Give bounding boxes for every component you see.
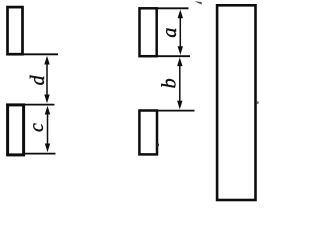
dimension arrow b: [177, 57, 182, 109]
scan speck on right edge of bottom-middle plate: [157, 144, 159, 147]
rectangle: bottom-middle plate: [139, 111, 157, 155]
svg-text:b: b: [158, 78, 180, 88]
svg-text:c: c: [26, 123, 48, 132]
svg-text:d: d: [27, 74, 49, 85]
dimension arrow a: [178, 10, 183, 56]
rectangle: bottom-left plate: [8, 105, 24, 155]
scan speck right of tall plate: [257, 102, 259, 104]
wire: extension line at top of top-middle plate: [156, 7, 189, 9]
wire: extension line from bottom of bottom-left plate: [24, 153, 56, 155]
wire: extension line at top of bottom-middle plate: [157, 110, 195, 112]
dimension arrow c: [45, 106, 50, 152]
scan speck above middle column: [195, 1, 202, 4]
wire: extension line at top of bottom-left plate: [6, 104, 55, 106]
wire: extension line from bottom of top-left plate: [23, 53, 58, 55]
wire: extension line at bottom of top-middle plate: [156, 55, 190, 57]
rectangle: top-middle plate: [140, 8, 157, 56]
dimension arrow d: [44, 56, 49, 103]
rectangle: tall right plate: [217, 5, 255, 200]
rectangle: top-left plate: [8, 7, 23, 54]
svg-text:a: a: [159, 28, 181, 38]
